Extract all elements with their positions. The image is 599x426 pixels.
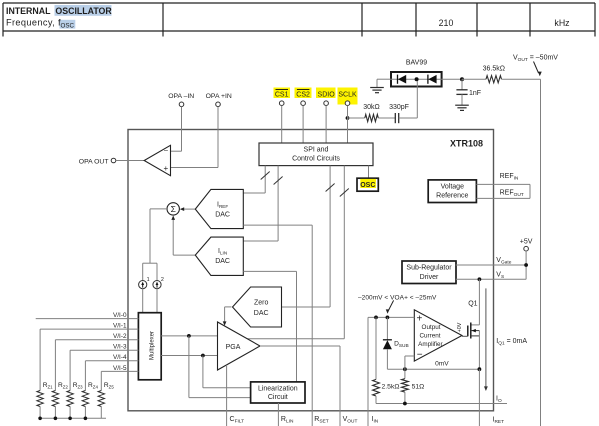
label SDIO (318, 92, 336, 99)
wire Zero DAC to PGA (arrow) (223, 307, 232, 326)
svg-text:OSC: OSC (61, 22, 75, 29)
svg-text:+: + (163, 164, 168, 173)
svg-text:OSCILLATOR: OSCILLATOR (55, 6, 112, 16)
svg-text:OPA +IN: OPA +IN (206, 93, 232, 100)
wire V/I-3 (70, 349, 138, 351)
svg-text:+0V: +0V (457, 322, 463, 332)
label +5V (520, 239, 533, 246)
label OSC (360, 182, 375, 189)
node rail/51 (403, 402, 407, 406)
diode D2 (right) (428, 75, 437, 84)
wire OPA+IN to op-amp (171, 107, 219, 168)
svg-text:Σ: Σ (171, 204, 176, 214)
label V/I-4 (113, 354, 127, 361)
wire +5V down (525, 251, 527, 279)
bus slash A (261, 172, 270, 180)
node 0mV/Q1 source (478, 367, 482, 371)
wire 0mV line (387, 368, 479, 370)
Sub-Regulator Driver box (402, 261, 456, 284)
label 51Ohm (412, 383, 425, 390)
op-amp Output Current Amplifier (414, 310, 462, 361)
annotation arrow to OA+ node (386, 300, 394, 313)
Zero DAC (233, 287, 282, 327)
Multiplexer box (138, 313, 161, 380)
node 1nF top (460, 77, 464, 81)
bus slash C (326, 184, 335, 192)
wire feedback upper to lin (189, 336, 251, 398)
svg-text:DAC: DAC (254, 310, 269, 317)
summing node Sigma (167, 203, 179, 215)
label RZ4 (88, 382, 98, 390)
bus slash B (274, 177, 283, 185)
svg-text:OSC: OSC (360, 182, 375, 189)
diode pair BAV99 box (391, 72, 442, 87)
wire SCLK to SPI box (347, 106, 349, 144)
label SCLK (338, 92, 357, 99)
label V/I-5 (113, 365, 127, 372)
label IRET (493, 417, 505, 426)
pin terminal +5V (524, 246, 529, 251)
wire R36.5k to Vout line (502, 78, 541, 80)
highlight OSC (360, 179, 376, 188)
wire V/I-4 (85, 360, 138, 362)
label CFILT (230, 416, 245, 425)
label V/I-0 (113, 312, 127, 319)
node mux upper/feedback (187, 334, 191, 338)
label V/I-3 (113, 344, 127, 351)
label VOUT (343, 416, 358, 425)
wire ILIN DAC to Linearization (243, 271, 296, 382)
wire PGA output to VOUT pin (260, 346, 340, 426)
label 330pF (389, 104, 409, 111)
diode DSUB (383, 317, 392, 369)
wire IRET (Q1 source to pin) (478, 369, 480, 426)
label CS1 (overline) (275, 90, 289, 99)
label 1 (147, 277, 150, 283)
label VGate (496, 257, 511, 266)
Linearization Circuit box (251, 382, 305, 403)
wire VS to Q1 drain (471, 279, 480, 325)
label Q1 (468, 301, 477, 308)
svg-text:DAC: DAC (215, 258, 230, 265)
wire CS2 to SPI box (302, 106, 304, 144)
svg-text:Amplifier: Amplifier (418, 341, 443, 348)
wire CFILT pin (226, 365, 228, 426)
label RZ2 (58, 382, 68, 390)
SPI and Control Circuits box (259, 143, 373, 166)
svg-text:SCLK: SCLK (338, 92, 357, 99)
svg-text:V/I-4: V/I-4 (113, 354, 127, 361)
wire RLIN pin (277, 403, 279, 426)
svg-text:PGA: PGA (226, 344, 241, 351)
svg-text:–200mV < VOA+ < –25mV: –200mV < VOA+ < –25mV (358, 294, 437, 301)
svg-text:1nF: 1nF (469, 90, 481, 97)
Voltage Reference box (428, 180, 476, 203)
OSC box (357, 178, 378, 191)
label SPI and Control Circuits (292, 147, 340, 163)
svg-text:CS1: CS1 (275, 92, 289, 99)
node BAV99 center tap (415, 77, 419, 81)
label BAV99 (406, 60, 427, 67)
label 2 (161, 277, 164, 283)
wire REFOUT (476, 197, 530, 199)
wire mux out upper (161, 335, 217, 337)
svg-text:V/I-3: V/I-3 (113, 344, 127, 351)
table cell: kHz (554, 18, 569, 28)
label V/I-2 (113, 333, 127, 340)
label Linearization Circuit (258, 386, 298, 402)
wire bottom rail (376, 403, 507, 405)
wire C330p to BAV99 tap (399, 81, 418, 118)
wire BAV99 right to node (442, 78, 462, 80)
resistor 51 (402, 369, 409, 403)
svg-text:+5V: +5V (520, 239, 533, 246)
pin terminal SDIO (324, 101, 329, 106)
current source 2 (153, 281, 161, 289)
svg-text:51Ω: 51Ω (412, 383, 425, 390)
highlight CS2 (295, 88, 312, 99)
pin terminal OPA OUT (111, 158, 116, 163)
svg-text:2: 2 (161, 277, 164, 283)
wire ILIN DAC to Sigma (arrow) (171, 216, 195, 256)
svg-text:Multiplexer: Multiplexer (150, 331, 156, 360)
wire OCA - input (405, 356, 414, 369)
svg-text:V/I-2: V/I-2 (113, 333, 127, 340)
svg-text:BAV99: BAV99 (406, 60, 427, 67)
op-amp OPA (uncommitted) (144, 145, 170, 175)
svg-text:210: 210 (439, 18, 454, 28)
annotation arrow IQ1 (484, 288, 488, 391)
svg-text:SDIO: SDIO (318, 92, 336, 99)
pin terminal CS2 (301, 101, 306, 106)
svg-text:V/I-5: V/I-5 (113, 365, 127, 372)
label VOUT = -50mV (513, 55, 558, 64)
ground (BAV99) (370, 88, 384, 93)
pin terminal OPA-IN (179, 102, 184, 107)
label 2.5kOhm (382, 383, 400, 390)
svg-text:Output: Output (422, 324, 441, 331)
label IO (496, 396, 502, 405)
wire current sources to mux (143, 289, 157, 313)
svg-text:Frequency, f: Frequency, f (6, 17, 61, 27)
wire node to R 36.5k (462, 78, 486, 80)
label OPA -IN (168, 93, 194, 100)
wire V/I-5 down to RZ5 (100, 371, 102, 390)
bus wire B (SPI to ILIN DAC) (243, 166, 278, 241)
label IQ1 = 0mA (496, 338, 527, 347)
svg-text:OPA OUT: OPA OUT (79, 158, 109, 165)
wire V/I-4 down to RZ4 (84, 361, 86, 391)
svg-text:CS2: CS2 (296, 92, 310, 99)
wire CS1 to SPI box (281, 106, 283, 144)
wire REFIN (476, 183, 530, 185)
label 30kOhm (363, 104, 380, 111)
ILIN DAC (195, 237, 243, 275)
svg-text:1: 1 (147, 277, 150, 283)
node 0mV/51 (403, 367, 407, 371)
bus slash D (340, 189, 349, 197)
svg-text:330pF: 330pF (389, 104, 409, 111)
label DSUB (394, 340, 409, 349)
wire IREF DAC to Sigma (arrow) (180, 207, 196, 211)
wire V/I-0 (36, 318, 139, 320)
svg-text:0mV: 0mV (435, 360, 449, 367)
node mux lower/feedback (201, 354, 205, 358)
resistor RZ3 (67, 391, 73, 419)
bus wire D (SPI to PGA) (248, 166, 345, 339)
resistor 30k (365, 114, 378, 121)
wire RZ common rail (40, 417, 106, 419)
wire IIN pin (367, 317, 369, 426)
label RSET (314, 416, 328, 425)
table cell: 210 (439, 18, 454, 28)
label OPA OUT (79, 158, 109, 165)
label RLIN (281, 416, 294, 425)
current source 1 (139, 281, 147, 289)
diode D1 (left) (398, 75, 407, 84)
wire feedback lower to lin (203, 356, 251, 388)
svg-text:V/I-1: V/I-1 (113, 323, 127, 330)
label 0mV (435, 360, 449, 367)
pin terminal CS1 (279, 101, 284, 106)
svg-text:Control Circuits: Control Circuits (292, 156, 340, 163)
PGA amplifier (218, 322, 261, 370)
wire Sigma to current sources (143, 209, 167, 281)
wire BAV99 left to ground (377, 79, 391, 87)
label REFIN (500, 173, 519, 182)
highlight SCLK (338, 88, 358, 105)
label XTR108 (450, 139, 483, 149)
svg-text:INTERNAL: INTERNAL (6, 6, 51, 16)
annotation -200mV < VOA+ < -25mV (358, 294, 437, 301)
svg-text:Circuit: Circuit (268, 394, 288, 401)
IREF DAC (195, 189, 243, 228)
label 1nF (469, 90, 481, 97)
svg-text:OPA –IN: OPA –IN (168, 93, 194, 100)
wire SCLK to R30k (348, 117, 365, 119)
label Voltage Reference (436, 184, 468, 200)
label Multiplexer (150, 331, 156, 360)
svg-text:Linearization: Linearization (258, 386, 298, 393)
svg-text:Q1: Q1 (468, 301, 477, 308)
wire OCA + input (368, 316, 414, 318)
bus wire C (SPI to Zero DAC) (282, 166, 330, 307)
node OA+/DSUB (386, 316, 390, 320)
highlight CS1 (274, 88, 291, 99)
table grid (3, 3, 595, 37)
label OPA +IN (206, 93, 232, 100)
wire VGate (456, 264, 526, 266)
node rail junction (54, 417, 58, 421)
ground (1nF) (455, 105, 469, 110)
XTR108 box (128, 130, 494, 411)
wire Vout vertical (right side) (540, 79, 542, 426)
svg-text:SPI and: SPI and (304, 147, 329, 154)
svg-text:XTR108: XTR108 (450, 139, 483, 149)
wire REF tie (529, 184, 531, 198)
svg-text:−: − (417, 350, 423, 361)
svg-text:Driver: Driver (420, 274, 439, 281)
label +0V (rotated) (457, 322, 463, 332)
wire mux out lower (161, 355, 217, 357)
resistor RZ2 (52, 391, 58, 419)
svg-text:36.5kΩ: 36.5kΩ (483, 66, 505, 73)
capacitor 330pF (395, 113, 398, 123)
label V/I-1 (113, 323, 127, 330)
resistor 2.5k (373, 317, 380, 403)
wire V/I-1 down to RZ1 (39, 329, 41, 390)
resistor RZ4 (82, 391, 88, 419)
label CS2 (overline) (296, 90, 310, 99)
label VS (496, 271, 504, 280)
table cell: INTERNAL OSCILLATOR (highlighted) (6, 5, 112, 16)
capacitor C 1nF (456, 79, 467, 105)
wire OPA OUT to op-amp (116, 160, 144, 162)
wire SDIO to SPI box (325, 106, 327, 144)
svg-text:Voltage: Voltage (441, 184, 464, 191)
label IIN (372, 416, 379, 425)
svg-text:DAC: DAC (215, 212, 230, 219)
pin terminal SCLK (345, 101, 350, 106)
node OA+/2.5k (374, 316, 378, 320)
svg-text:Current: Current (420, 333, 441, 340)
highlight SDIO (316, 88, 336, 99)
wire V/I-5 (101, 370, 138, 372)
resistor RZ1 (37, 391, 43, 419)
label REFOUT (500, 190, 524, 199)
label RZ3 (73, 382, 83, 390)
node rail junction (84, 417, 88, 421)
node VS/Q1 drain (478, 277, 482, 281)
wire V/I-3 down to RZ3 (69, 350, 71, 390)
wire IREF DAC to RSET (243, 225, 312, 426)
table cell: Frequency fOSC (6, 17, 75, 29)
pin terminal OPA+IN (216, 102, 221, 107)
node rail junction (38, 417, 42, 421)
transistor Q1 (MOSFET) (468, 323, 480, 339)
label Sub-Regulator Driver (406, 265, 452, 281)
wire V/I-2 down to RZ2 (54, 340, 56, 391)
svg-text:2.5kΩ: 2.5kΩ (382, 383, 400, 390)
label RZ1 (43, 382, 53, 390)
node SCLK junction (346, 116, 350, 120)
wire VS (456, 278, 526, 280)
wire OCA output to Q1 gate (462, 335, 468, 337)
svg-text:+: + (416, 314, 422, 325)
resistor 36.5k (486, 76, 502, 83)
wire OPA-IN to op-amp (171, 107, 182, 152)
svg-text:V/I-0: V/I-0 (113, 312, 127, 319)
wire R30k to C330p (378, 117, 395, 119)
svg-text:Reference: Reference (436, 193, 468, 200)
wire V/I-1 (40, 328, 138, 330)
svg-text:Zero: Zero (254, 300, 269, 307)
wire Q1 source down (478, 331, 480, 370)
wire BAV99 internal (391, 78, 442, 80)
bus wire A (SPI to IREF DAC) (243, 166, 265, 193)
svg-text:Sub-Regulator: Sub-Regulator (406, 265, 452, 272)
resistor RZ5 (98, 391, 104, 419)
annotation arrow to Vout (534, 62, 542, 77)
label 36.5kOhm (483, 66, 505, 73)
svg-text:30kΩ: 30kΩ (363, 104, 380, 111)
svg-text:kHz: kHz (554, 18, 569, 28)
node rail junction (68, 417, 72, 421)
node VGate/+5V (524, 263, 528, 267)
wire V/I-2 (55, 339, 138, 341)
wire SPI to OSC (368, 166, 370, 179)
svg-text:–: – (164, 147, 168, 154)
label RZ5 (104, 382, 114, 390)
